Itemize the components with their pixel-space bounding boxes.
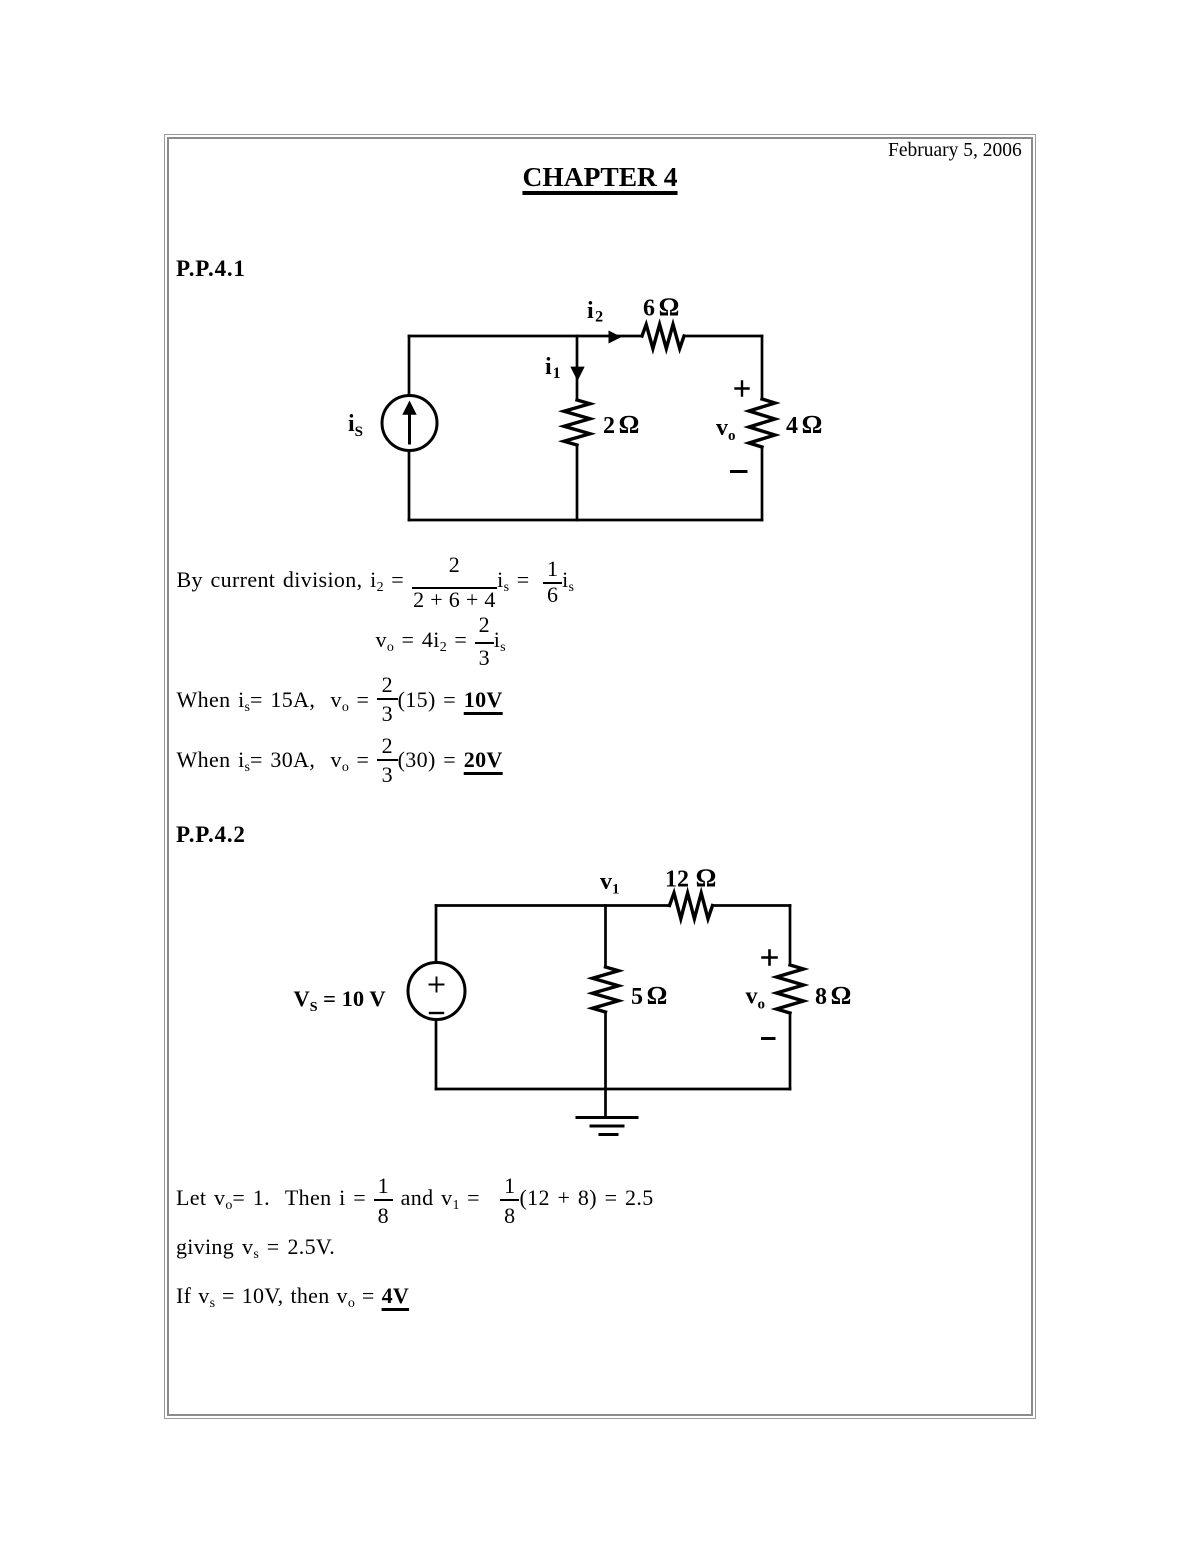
svg-text:6Ω: 6Ω xyxy=(643,293,679,322)
svg-text:i1: i1 xyxy=(545,354,561,382)
svg-text:4Ω: 4Ω xyxy=(786,410,822,439)
svg-text:vo: vo xyxy=(746,984,766,1013)
svg-text:i2: i2 xyxy=(587,298,603,326)
svg-text:VS = 10 V: VS = 10 V xyxy=(294,986,386,1015)
svg-text:12Ω: 12Ω xyxy=(665,864,716,893)
svg-text:8Ω: 8Ω xyxy=(815,981,851,1010)
svg-text:v1: v1 xyxy=(600,869,620,898)
svg-text:5Ω: 5Ω xyxy=(631,981,667,1010)
svg-text:iS: iS xyxy=(348,411,363,440)
svg-text:vo: vo xyxy=(716,415,736,444)
svg-text:2Ω: 2Ω xyxy=(603,410,639,439)
